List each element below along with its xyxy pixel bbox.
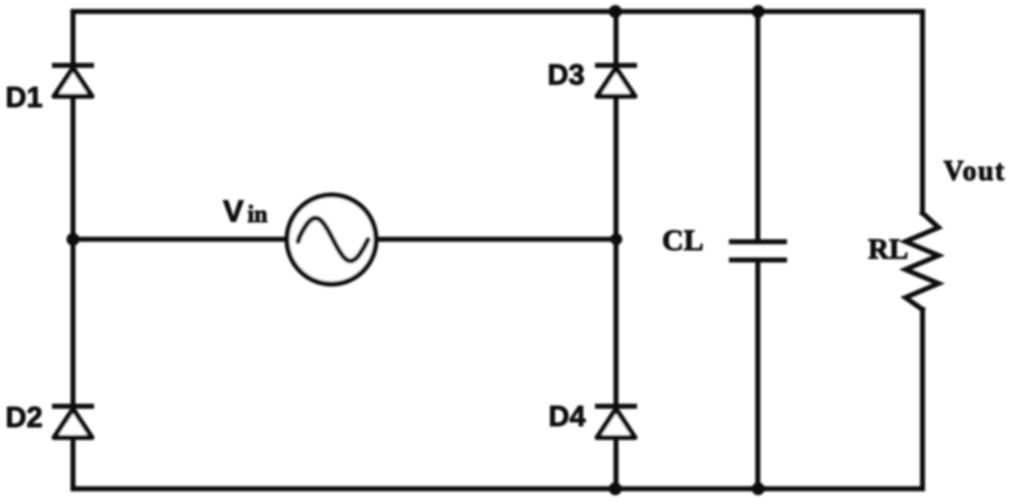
svg-text:RL: RL <box>868 234 908 266</box>
svg-text:D1: D1 <box>6 82 43 114</box>
svg-text:D2: D2 <box>6 402 43 434</box>
svg-text:V: V <box>223 194 244 229</box>
svg-text:D3: D3 <box>548 60 585 92</box>
svg-text:D4: D4 <box>549 401 586 433</box>
svg-text:CL: CL <box>662 224 704 257</box>
svg-text:Vout: Vout <box>944 156 1006 187</box>
svg-text:in: in <box>248 202 268 228</box>
